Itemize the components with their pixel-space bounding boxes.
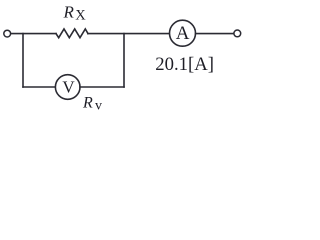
terminal right: [234, 30, 241, 37]
resistor RX: [56, 29, 88, 38]
svg-text:v: v: [95, 98, 102, 112]
svg-text:20.1[A]: 20.1[A]: [155, 54, 214, 75]
svg-text:V: V: [62, 78, 75, 97]
wire: [123, 34, 125, 87]
wire: [22, 34, 24, 87]
svg-text:X: X: [75, 7, 86, 23]
svg-text:A: A: [176, 23, 190, 44]
wire: [80, 86, 124, 88]
wire: [88, 33, 169, 35]
terminal left: [4, 30, 11, 37]
wire: [23, 86, 55, 88]
wire: [11, 33, 56, 35]
wire: [196, 33, 234, 35]
ammeter A: [170, 20, 196, 46]
svg-text:R: R: [82, 95, 93, 112]
svg-text:R: R: [63, 3, 75, 22]
voltmeter V: [55, 75, 80, 100]
